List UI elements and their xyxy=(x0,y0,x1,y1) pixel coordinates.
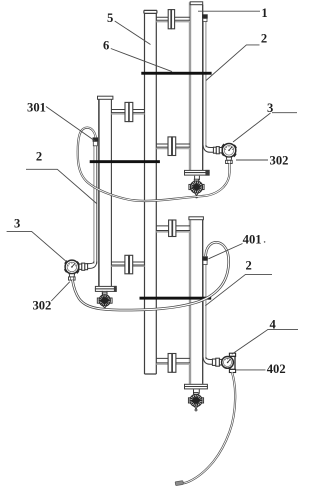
leader 3 left xyxy=(7,231,67,261)
svg-text:302: 302 xyxy=(270,154,289,168)
leader 2 lower right xyxy=(205,274,272,305)
svg-text:1: 1 xyxy=(261,6,267,20)
drain stem of upper chamber xyxy=(195,176,200,181)
elbow from tube into lower transmitter xyxy=(203,357,212,364)
cable from fitting 301 to transmitter 302R xyxy=(78,128,230,201)
svg-text:2: 2 xyxy=(261,31,267,45)
leader 2 left xyxy=(26,169,97,203)
svg-text:2: 2 xyxy=(36,149,42,163)
transmitter 402 lower right xyxy=(212,353,235,372)
leader 301 xyxy=(46,107,95,142)
elbow from tube into right transmitter xyxy=(203,145,213,152)
fitting 301 xyxy=(93,138,98,146)
svg-text:5: 5 xyxy=(107,11,113,25)
flange pair on lower-top nozzle xyxy=(169,220,176,237)
lower right gauge chamber body xyxy=(189,217,204,384)
nozzle pipe: column to upper chamber, top xyxy=(156,17,190,21)
leader 3 upper right xyxy=(233,113,297,142)
svg-text:3: 3 xyxy=(14,216,20,230)
leader 302 left xyxy=(51,282,70,301)
bottom flange of upper chamber xyxy=(185,170,210,175)
nozzle pipe: column to lower chamber, bottom xyxy=(156,358,190,364)
drain valve under left chamber xyxy=(97,293,112,308)
level indicator bar on lower chamber xyxy=(140,297,212,300)
flange pair on middle nozzle xyxy=(168,137,176,156)
flange pair on left upper nozzle xyxy=(125,102,133,121)
svg-text:301: 301 xyxy=(27,101,46,115)
svg-text:3: 3 xyxy=(267,101,273,115)
level indicator bar on left chamber xyxy=(90,160,160,163)
leader 4 xyxy=(232,329,298,354)
leader 1 xyxy=(198,10,260,12)
drain stem of lower chamber xyxy=(194,389,200,394)
fitting 401 xyxy=(203,257,208,265)
transmitter 302 left xyxy=(65,260,88,280)
svg-text:4: 4 xyxy=(269,318,276,332)
level indicator bar on upper chamber xyxy=(141,72,211,75)
leader lines xyxy=(7,11,298,370)
flange pair on top nozzle xyxy=(168,10,174,29)
sensor tube on left chamber (left side) with top fitting 301 xyxy=(94,146,97,264)
svg-text:302: 302 xyxy=(32,299,51,313)
drain valve under upper chamber xyxy=(189,179,204,198)
flange pair on lower-bottom nozzle xyxy=(168,354,176,373)
bottom flange of left chamber xyxy=(95,286,116,291)
cable end lug xyxy=(175,481,183,486)
svg-text:402: 402 xyxy=(267,362,286,376)
flange pair on left lower nozzle xyxy=(125,255,133,273)
leader 2 upper right xyxy=(206,45,260,81)
drain valve under lower chamber xyxy=(188,393,203,411)
nozzle pipe: left chamber to column, upper xyxy=(111,110,144,114)
bottom flange of lower chamber xyxy=(185,384,208,389)
drain stem of left chamber xyxy=(102,291,107,295)
left gauge chamber body xyxy=(98,96,113,286)
nozzle pipe: column to upper chamber, middle xyxy=(156,144,190,148)
transmitter 302 upper right xyxy=(213,144,236,164)
leader 302 right xyxy=(236,159,268,161)
leader 5 xyxy=(115,21,151,45)
cable from transmitter 302L to fitting 401 xyxy=(73,242,229,310)
sensor tube on lower chamber (right side) with top fitting 401 xyxy=(203,264,206,359)
sensor tube on upper chamber (right side) xyxy=(203,15,208,148)
main column 5 (tank standpipe) xyxy=(144,10,157,374)
gauge chamber 1 (upper right chamber body) xyxy=(190,2,203,171)
cable from transmitter 402 to loose end xyxy=(183,372,236,483)
leader 401 xyxy=(209,244,243,259)
svg-text:401: 401 xyxy=(243,233,262,247)
nozzle pipe: left chamber to column, lower xyxy=(111,262,144,266)
elbow from tube into left transmitter xyxy=(87,262,97,269)
nozzle pipe: column to lower chamber, top xyxy=(156,226,190,232)
leader 6 xyxy=(111,49,172,72)
svg-text:2: 2 xyxy=(245,259,251,273)
leader 402 xyxy=(236,369,265,371)
svg-text:6: 6 xyxy=(103,39,109,53)
